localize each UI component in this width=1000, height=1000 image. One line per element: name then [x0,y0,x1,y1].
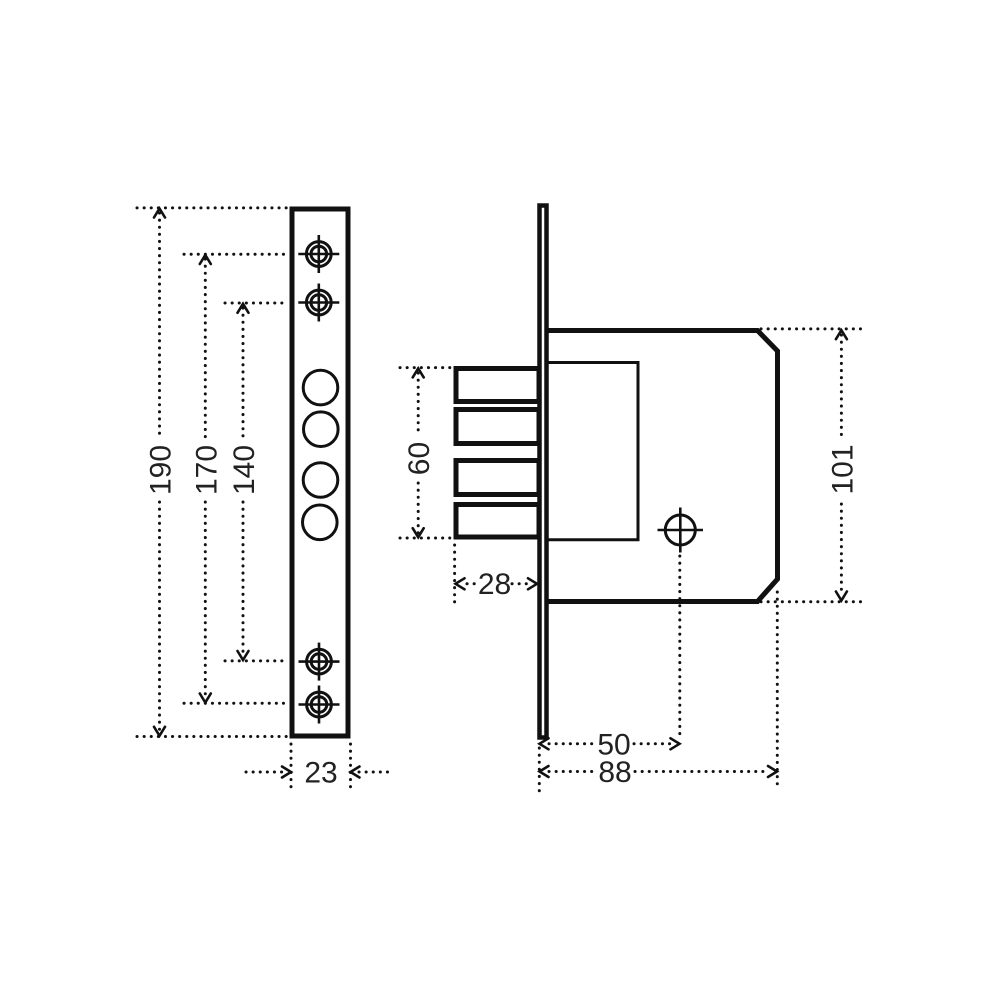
svg-text:190: 190 [145,445,178,495]
svg-text:23: 23 [304,757,337,790]
svg-text:88: 88 [598,756,631,789]
svg-text:60: 60 [403,442,436,475]
svg-text:28: 28 [478,568,511,601]
svg-text:170: 170 [190,445,223,495]
svg-text:101: 101 [827,444,860,494]
svg-text:140: 140 [228,445,261,495]
